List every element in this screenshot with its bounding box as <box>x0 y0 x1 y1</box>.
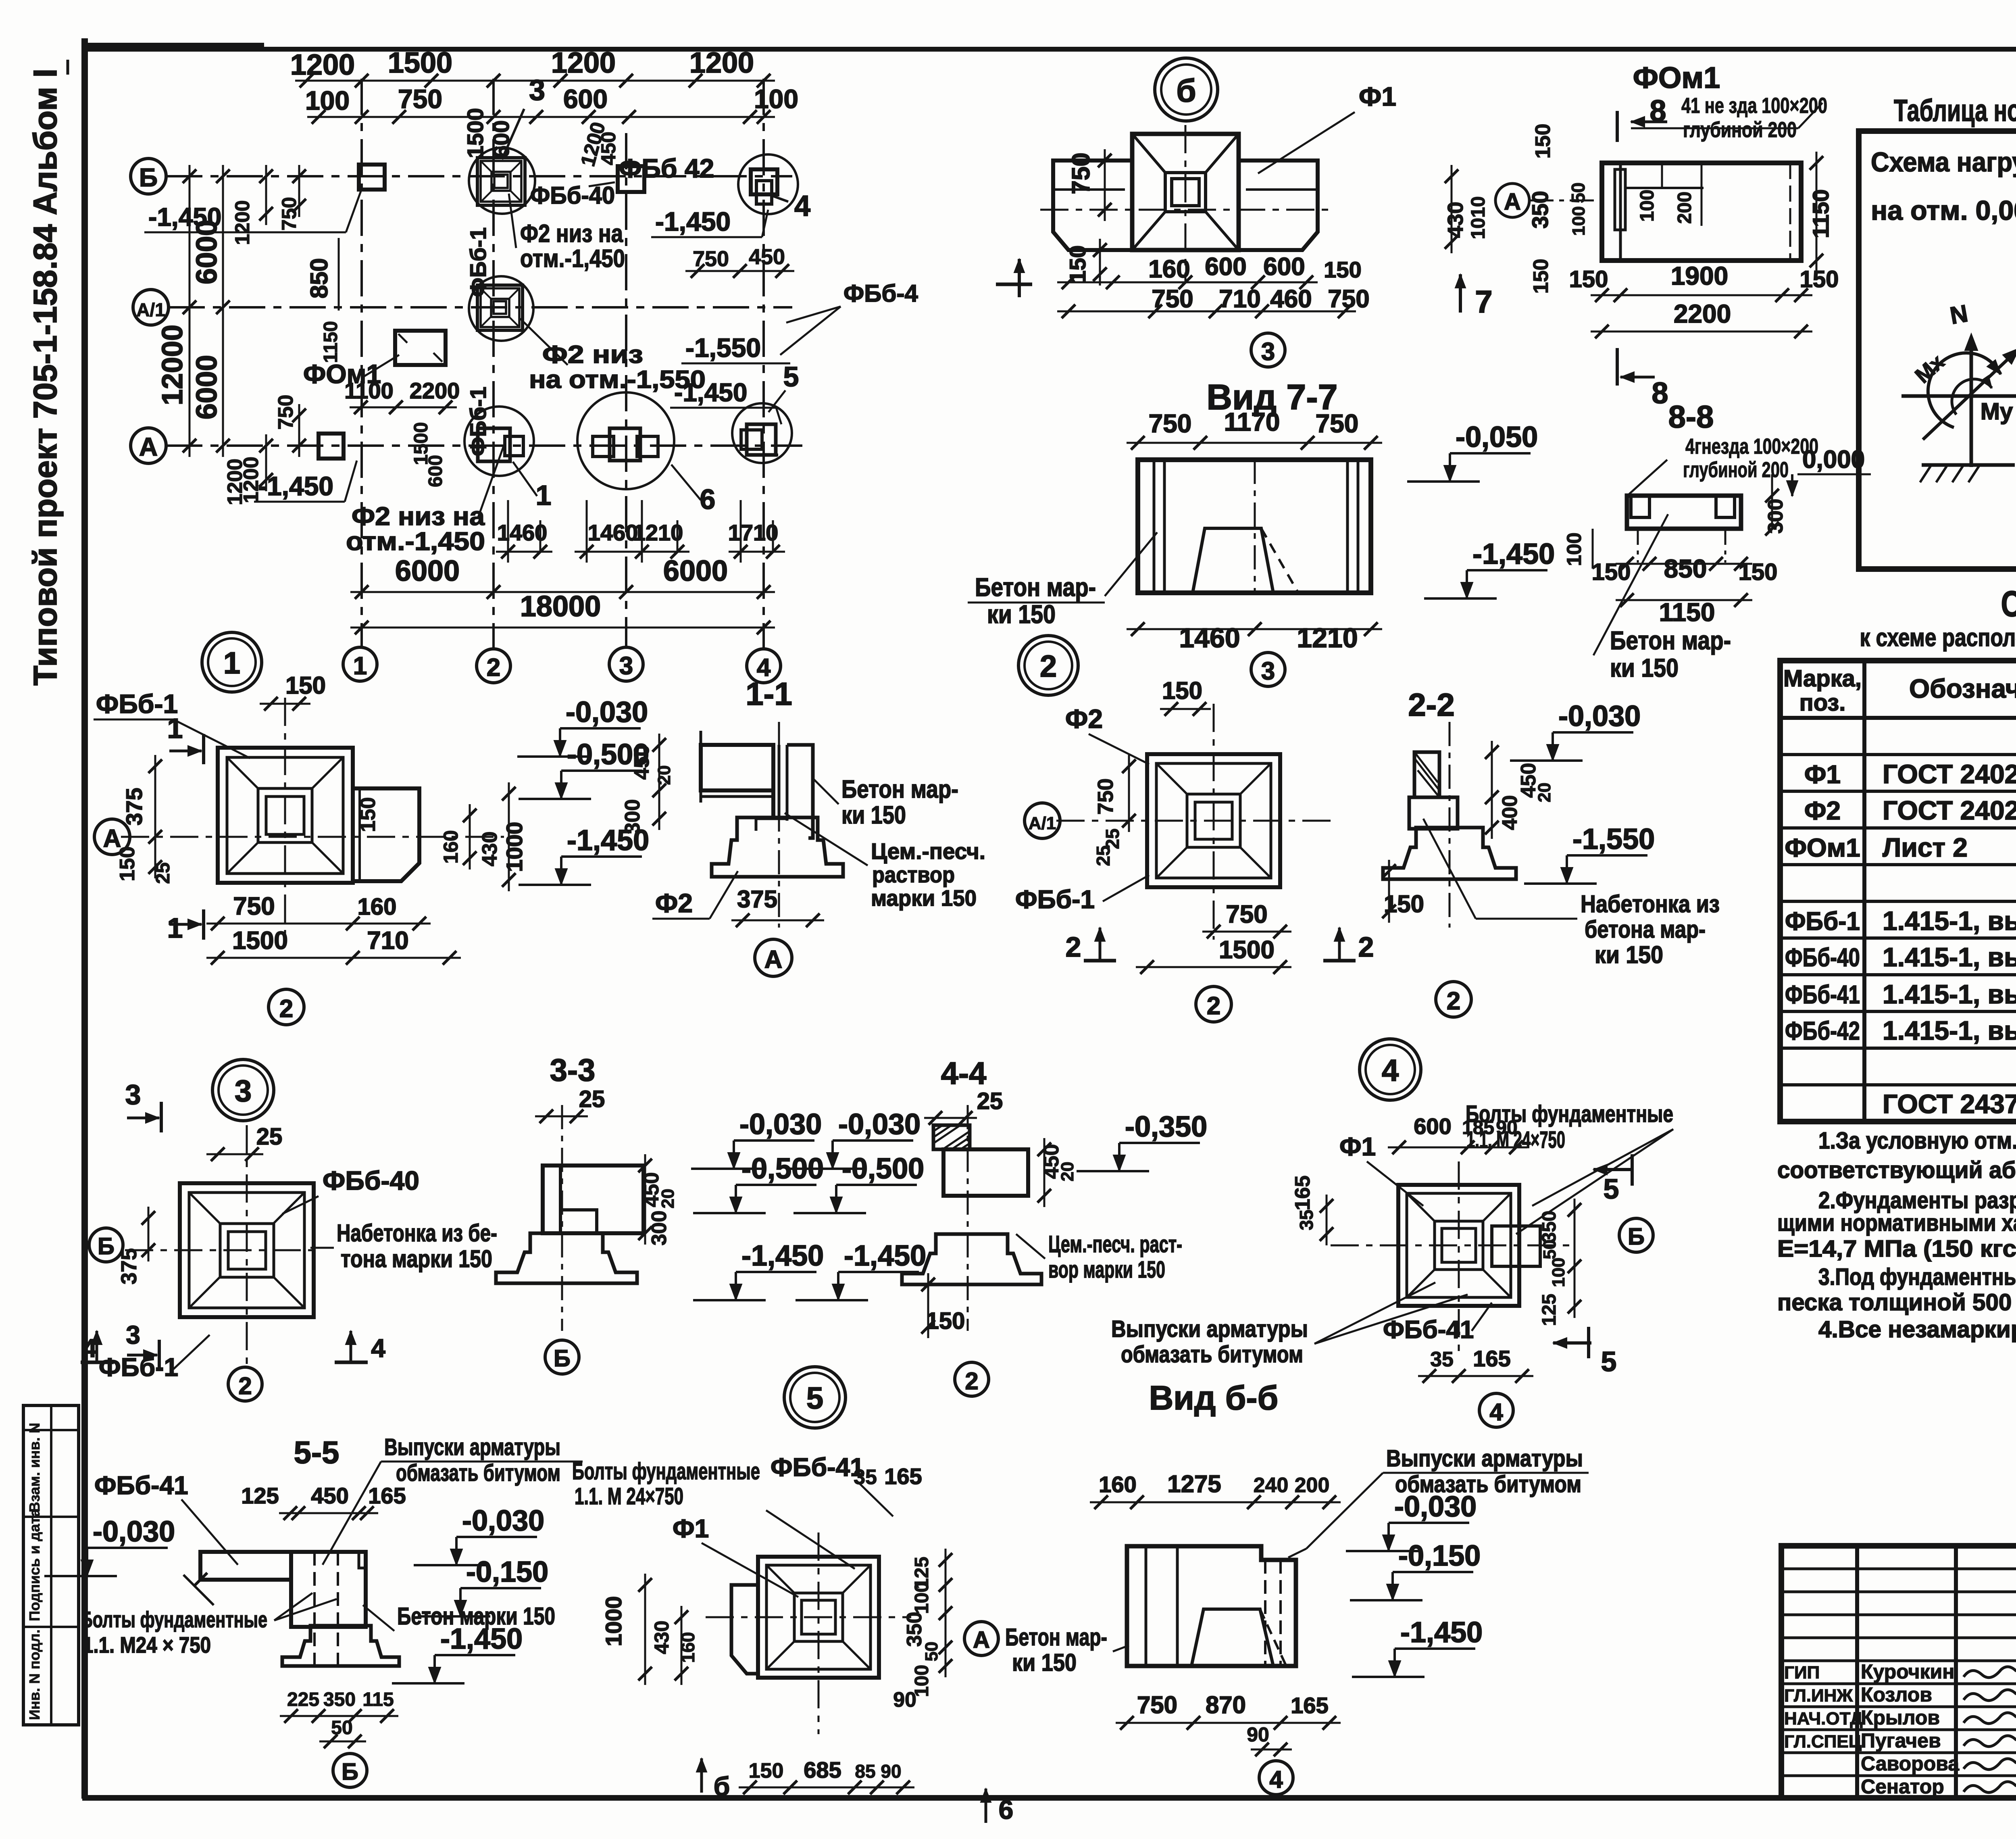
svg-text:Б: Б <box>1628 1224 1645 1250</box>
svg-text:-1,450: -1,450 <box>844 1240 926 1272</box>
svg-text:ФБб-41: ФБб-41 <box>94 1471 188 1500</box>
svg-text:Ф1: Ф1 <box>673 1514 709 1543</box>
svg-text:-0,030: -0,030 <box>739 1108 822 1141</box>
svg-text:отм.-1,450: отм.-1,450 <box>346 527 485 556</box>
8-8 body <box>1627 496 1741 529</box>
svg-text:150: 150 <box>749 1759 784 1783</box>
detail б left beam <box>1053 161 1132 250</box>
svg-text:Выпуски арматуры: Выпуски арматуры <box>1111 1316 1308 1342</box>
svg-text:А: А <box>1504 189 1521 215</box>
svg-text:-1,450: -1,450 <box>655 206 731 236</box>
spec table columns <box>1862 661 1866 1122</box>
svg-text:4.Все незамаркированные фундам: 4.Все незамаркированные фундаменты марки… <box>1818 1316 2016 1343</box>
svg-text:600: 600 <box>1414 1113 1451 1139</box>
sheet frame <box>81 38 88 1799</box>
svg-text:Ф2: Ф2 <box>1065 704 1103 734</box>
svg-text:-0,050: -0,050 <box>1456 421 1538 453</box>
svg-text:600: 600 <box>1205 253 1246 281</box>
svg-text:Марка,: Марка, <box>1783 665 1862 692</box>
svg-text:А: А <box>973 1627 990 1653</box>
svg-text:3: 3 <box>529 74 545 106</box>
svg-text:750: 750 <box>1067 152 1095 194</box>
svg-text:350: 350 <box>323 1689 356 1710</box>
plan axis line А/1 <box>169 306 792 309</box>
svg-text:150: 150 <box>285 672 326 699</box>
svg-text:100: 100 <box>1569 206 1589 236</box>
svg-text:150: 150 <box>1531 124 1555 159</box>
svg-text:4: 4 <box>82 1334 97 1363</box>
plan column bubble 4 <box>747 649 781 683</box>
svg-text:ки 150: ки 150 <box>1595 941 1663 968</box>
detail circle 4 at Б-4 <box>738 154 798 214</box>
svg-text:2: 2 <box>279 995 293 1023</box>
svg-text:710: 710 <box>1219 285 1260 313</box>
svg-text:150: 150 <box>356 797 380 832</box>
svg-text:600: 600 <box>1263 253 1305 281</box>
svg-text:2: 2 <box>1447 987 1460 1015</box>
svg-text:Пугачев: Пугачев <box>1861 1729 1941 1752</box>
svg-text:1275: 1275 <box>1167 1470 1221 1497</box>
detail circle 2 at А/1-2 <box>469 276 533 341</box>
svg-text:1200: 1200 <box>689 47 754 79</box>
Вид 6-6 bubble 4 <box>1259 1761 1293 1795</box>
svg-text:1150: 1150 <box>1659 598 1715 627</box>
detail 1 foundation plan <box>218 748 353 883</box>
svg-text:А: А <box>139 432 158 461</box>
svg-text:на отм. 0,000: на отм. 0,000 <box>1871 195 2016 226</box>
svg-text:100: 100 <box>305 85 350 115</box>
svg-text:375: 375 <box>121 788 147 825</box>
4-4 foundation bell <box>902 1234 1041 1284</box>
svg-text:1170: 1170 <box>1224 407 1280 436</box>
svg-text:ки 150: ки 150 <box>1012 1649 1077 1676</box>
section mark 8 bottom <box>1616 348 1619 386</box>
svg-text:НАЧ.ОТД: НАЧ.ОТД <box>1784 1709 1863 1728</box>
svg-text:ки 150: ки 150 <box>841 801 906 829</box>
left margin stamp strip <box>23 1405 79 1725</box>
svg-text:1.415-1, вып.1: 1.415-1, вып.1 <box>1883 942 2016 972</box>
svg-text:25: 25 <box>256 1124 283 1150</box>
svg-text:5: 5 <box>783 361 799 392</box>
svg-text:450: 450 <box>630 745 654 780</box>
svg-text:1500: 1500 <box>1219 936 1275 964</box>
svg-text:Ф1: Ф1 <box>1339 1132 1376 1161</box>
svg-text:ки 150: ки 150 <box>1610 653 1679 682</box>
svg-text:850: 850 <box>1664 554 1707 583</box>
plan bottom dim 18000 <box>350 627 775 629</box>
plan top dimension chain row 1 <box>295 80 775 82</box>
section mark 5 right <box>1593 1168 1632 1171</box>
svg-text:100: 100 <box>911 1582 933 1614</box>
svg-text:350: 350 <box>903 1612 926 1647</box>
title block signature squiggles <box>1964 1667 2016 1678</box>
svg-text:90: 90 <box>881 1761 901 1782</box>
svg-text:1200: 1200 <box>551 47 616 79</box>
plan column line 2 <box>492 79 495 649</box>
svg-text:0,000: 0,000 <box>1802 446 1865 473</box>
ФОм1 plan body <box>1602 163 1801 261</box>
4-4 bubble 2 <box>955 1362 989 1396</box>
svg-text:бетона мар-: бетона мар- <box>1585 916 1706 943</box>
svg-text:50: 50 <box>922 1642 941 1662</box>
svg-text:-0,030: -0,030 <box>1558 700 1641 732</box>
svg-text:ФОм1: ФОм1 <box>1633 61 1720 94</box>
svg-text:8: 8 <box>1652 376 1668 410</box>
svg-text:600: 600 <box>563 84 608 114</box>
svg-text:450: 450 <box>597 131 620 165</box>
svg-text:1200: 1200 <box>231 200 254 245</box>
svg-text:25: 25 <box>1093 845 1114 866</box>
svg-text:685: 685 <box>804 1757 841 1783</box>
svg-text:Ф2: Ф2 <box>655 888 693 918</box>
plan top dimension chain row 2 <box>307 116 775 118</box>
detail 2 bottom dims <box>1202 931 1291 933</box>
foundation А-2 group with beam <box>478 428 510 461</box>
svg-text:165: 165 <box>884 1464 922 1489</box>
svg-text:1460: 1460 <box>588 520 638 545</box>
detail б foundation plan <box>1185 125 1187 282</box>
svg-text:Лист 2: Лист 2 <box>1883 832 1968 862</box>
svg-text:870: 870 <box>1206 1691 1246 1718</box>
svg-text:160: 160 <box>1099 1472 1136 1497</box>
Вид 7-7 bubble 3 <box>1251 653 1285 686</box>
svg-text:Взам. инв. N: Взам. инв. N <box>26 1423 43 1512</box>
svg-text:Саворова: Саворова <box>1861 1752 1960 1775</box>
svg-text:4: 4 <box>1269 1766 1283 1793</box>
svg-text:100: 100 <box>1637 190 1658 222</box>
section mark 7 right <box>1459 274 1462 313</box>
detail 1 beam right <box>353 788 419 881</box>
svg-text:2: 2 <box>238 1372 252 1399</box>
svg-text:Б: Б <box>554 1345 571 1372</box>
2-2 pedestal and bell <box>1409 797 1458 829</box>
svg-text:240: 240 <box>1254 1474 1289 1497</box>
svg-text:3.Под фундаментные балки выпол: 3.Под фундаментные балки выполнить подго… <box>1818 1264 2016 1290</box>
svg-text:1010: 1010 <box>1468 196 1489 240</box>
detail circle 1 at А-2 <box>464 407 534 476</box>
Вид 7-7 top dims <box>1127 442 1382 444</box>
detail 2 foundation plan <box>1147 754 1280 887</box>
svg-text:100: 100 <box>754 84 798 114</box>
svg-text:6: 6 <box>700 484 716 515</box>
plan bottom dim 6000 6000 <box>350 591 775 593</box>
svg-text:150: 150 <box>1800 266 1839 292</box>
svg-text:Выпуски арматуры: Выпуски арматуры <box>384 1434 560 1460</box>
2-2 bubble 2 <box>1436 982 1471 1017</box>
svg-text:5-5: 5-5 <box>294 1435 339 1470</box>
svg-text:6000: 6000 <box>663 555 728 587</box>
svg-text:-0,150: -0,150 <box>466 1556 548 1588</box>
svg-text:90: 90 <box>1496 1117 1517 1138</box>
svg-text:300: 300 <box>621 799 644 834</box>
svg-text:430: 430 <box>650 1620 673 1654</box>
svg-text:50: 50 <box>1568 182 1589 203</box>
5-5 axis circle Б <box>333 1754 367 1787</box>
svg-text:150: 150 <box>1592 559 1631 585</box>
svg-text:1.415-1, вып.1: 1.415-1, вып.1 <box>1883 906 2016 936</box>
svg-text:6000: 6000 <box>395 555 460 587</box>
detail bubble 3 <box>212 1059 274 1121</box>
svg-text:ФБб-1: ФБб-1 <box>1015 885 1095 914</box>
svg-text:750: 750 <box>1152 285 1193 313</box>
svg-text:750: 750 <box>274 395 298 430</box>
svg-text:ФБб-1: ФБб-1 <box>96 689 178 719</box>
svg-text:Цем.-песч.: Цем.-песч. <box>871 838 985 864</box>
svg-text:Спецификация элементов: Спецификация элементов <box>2001 584 2016 624</box>
svg-text:My: My <box>1981 398 2013 425</box>
detail 4 axis circle Б <box>1619 1218 1653 1252</box>
svg-text:150: 150 <box>116 847 139 882</box>
svg-text:-0,030: -0,030 <box>566 696 648 728</box>
section mark 7 left <box>1018 259 1021 297</box>
svg-text:Бетон мар-: Бетон мар- <box>1005 1624 1107 1651</box>
svg-text:1460: 1460 <box>1179 623 1240 653</box>
section mark 6 (detail 5) <box>700 1758 703 1793</box>
svg-text:Подпись и дата: Подпись и дата <box>26 1508 43 1621</box>
svg-text:ФБб 42: ФБб 42 <box>619 153 714 183</box>
1-1 beam section <box>700 731 702 803</box>
svg-text:б: б <box>1176 73 1196 108</box>
svg-text:165: 165 <box>368 1483 406 1508</box>
detail 3 axis circle Б <box>89 1228 123 1262</box>
1-1 axis circle А <box>755 939 792 976</box>
svg-text:25: 25 <box>977 1088 1003 1114</box>
detail б bubble 3 below <box>1251 333 1285 367</box>
svg-text:750: 750 <box>1226 901 1267 928</box>
title block signature grid <box>1855 1546 1859 1798</box>
svg-text:ФБб-1: ФБб-1 <box>1785 907 1860 936</box>
svg-text:2: 2 <box>487 654 500 682</box>
svg-text:1.415-1, вып.1: 1.415-1, вып.1 <box>1883 979 2016 1009</box>
svg-text:200: 200 <box>1295 1474 1330 1497</box>
svg-text:вор марки 150: вор марки 150 <box>1048 1257 1165 1283</box>
section mark 4 lower-left <box>96 1331 98 1363</box>
detail 4 bubble 4 <box>1479 1393 1513 1427</box>
svg-text:ГЛ.СПЕЦ: ГЛ.СПЕЦ <box>1784 1732 1862 1751</box>
svg-text:ФБб-40: ФБб-40 <box>530 182 615 209</box>
svg-text:8-8: 8-8 <box>1668 399 1714 434</box>
svg-text:Типовой проект 705-1-158.8: Типовой проект 705-1-158.84 Альбом I <box>27 69 64 686</box>
svg-text:750: 750 <box>1316 409 1359 438</box>
svg-text:2: 2 <box>965 1368 978 1395</box>
svg-text:200: 200 <box>1674 192 1695 224</box>
svg-text:А/1: А/1 <box>1029 813 1056 833</box>
svg-text:поз.: поз. <box>1799 690 1846 716</box>
svg-text:1.1. М 24×750: 1.1. М 24×750 <box>575 1483 683 1510</box>
svg-text:160: 160 <box>1148 255 1190 283</box>
svg-text:160: 160 <box>358 894 397 920</box>
svg-text:ФБб-41: ФБб-41 <box>771 1453 864 1482</box>
svg-text:1210: 1210 <box>633 520 683 545</box>
svg-text:3: 3 <box>126 1320 140 1349</box>
svg-text:450: 450 <box>311 1483 348 1508</box>
detail 1 axis circle А <box>94 819 130 855</box>
svg-text:1200: 1200 <box>223 459 247 505</box>
svg-text:1500: 1500 <box>462 108 488 158</box>
svg-text:ФБб-1: ФБб-1 <box>99 1353 178 1382</box>
svg-text:ГЛ.ИНЖ: ГЛ.ИНЖ <box>1784 1686 1853 1706</box>
svg-text:1710: 1710 <box>728 520 779 545</box>
svg-text:Курочкин: Курочкин <box>1861 1660 1955 1683</box>
svg-text:ГОСТ 24379.1-80: ГОСТ 24379.1-80 <box>1883 1089 2016 1119</box>
svg-text:225: 225 <box>287 1689 319 1710</box>
svg-text:20: 20 <box>1535 783 1554 803</box>
loads schema sketch N Qx Qy My Mx <box>1970 338 1973 467</box>
svg-text:б: б <box>714 1771 730 1801</box>
plan column line 3 <box>625 133 627 647</box>
svg-text:150: 150 <box>1162 677 1202 704</box>
svg-text:115: 115 <box>362 1689 394 1710</box>
svg-text:1200: 1200 <box>290 49 355 81</box>
svg-text:2: 2 <box>1207 992 1220 1020</box>
svg-text:1: 1 <box>353 652 367 680</box>
svg-text:1.1. М24 × 750: 1.1. М24 × 750 <box>83 1632 211 1658</box>
svg-text:450: 450 <box>749 245 785 269</box>
svg-text:1000: 1000 <box>502 822 527 872</box>
svg-text:35: 35 <box>1296 1209 1317 1230</box>
svg-text:Бетон мар-: Бетон мар- <box>841 776 958 803</box>
svg-text:5: 5 <box>1604 1173 1619 1205</box>
detail 4 foundation plan <box>1398 1185 1519 1306</box>
svg-text:Таблица нормативных нагрузок: Таблица нормативных нагрузок на фундамен… <box>1894 94 2016 128</box>
detail bubble 2 <box>1018 636 1078 695</box>
svg-text:соответствующий абсолютной отм: соответствующий абсолютной отметке на ме… <box>1777 1157 2016 1183</box>
svg-text:1.За условную отм.0,000 принят: 1.За условную отм.0,000 принят уровень ч… <box>1818 1128 2016 1154</box>
foundation square Б-3 <box>618 166 644 192</box>
svg-text:430: 430 <box>1443 202 1468 238</box>
svg-text:ГИП: ГИП <box>1784 1663 1820 1683</box>
loads table outer box <box>1859 131 2016 569</box>
svg-text:2: 2 <box>1066 931 1081 963</box>
svg-text:5: 5 <box>1601 1346 1617 1377</box>
svg-text:марки 150: марки 150 <box>871 885 977 911</box>
svg-text:ФБб-42: ФБб-42 <box>1785 1016 1860 1045</box>
svg-text:150: 150 <box>1324 257 1361 282</box>
svg-text:90: 90 <box>1247 1723 1269 1746</box>
svg-text:460: 460 <box>1270 285 1312 313</box>
plan column line 1 <box>360 79 363 647</box>
svg-text:1: 1 <box>536 480 552 511</box>
2-2 column stub hatched <box>1414 752 1439 797</box>
detail circle 6 at А-3 <box>577 392 674 489</box>
svg-text:1500: 1500 <box>388 47 452 79</box>
plan axis А/1 circle <box>133 290 169 325</box>
svg-text:Инв. N подл.: Инв. N подл. <box>26 1629 43 1720</box>
Вид 7-7 bottom dims <box>1127 628 1382 630</box>
svg-text:2200: 2200 <box>410 378 460 403</box>
detail bubble б <box>1155 58 1218 121</box>
svg-text:4: 4 <box>371 1334 385 1363</box>
svg-text:ГОСТ 24022-80: ГОСТ 24022-80 <box>1883 759 2016 789</box>
svg-text:4-4: 4-4 <box>941 1055 987 1091</box>
svg-text:165: 165 <box>1291 1176 1314 1211</box>
svg-text:Бетон мар-: Бетон мар- <box>975 573 1096 602</box>
svg-text:6: 6 <box>999 1795 1014 1824</box>
svg-text:18000: 18000 <box>520 590 601 623</box>
svg-text:ФОм1: ФОм1 <box>1785 833 1860 862</box>
title block outer <box>1781 1546 2016 1798</box>
svg-text:Набетонка из: Набетонка из <box>1581 890 1720 917</box>
svg-text:20: 20 <box>658 1189 678 1209</box>
plan column line 4 <box>762 79 765 649</box>
spec table header <box>1780 716 2016 720</box>
foundation А-4 group <box>741 430 762 449</box>
svg-text:-1,450: -1,450 <box>1400 1616 1483 1649</box>
svg-text:150: 150 <box>1529 259 1553 294</box>
svg-text:-1,450: -1,450 <box>674 378 747 407</box>
svg-text:Болты фундаментные: Болты фундаментные <box>81 1607 267 1632</box>
svg-text:Набетонка из бе-: Набетонка из бе- <box>337 1220 497 1247</box>
svg-text:375: 375 <box>737 886 777 913</box>
svg-text:150: 150 <box>1569 266 1608 292</box>
detail 2 axis circle А/1 <box>1025 803 1060 838</box>
svg-text:1: 1 <box>167 713 183 744</box>
svg-text:750: 750 <box>1149 409 1192 438</box>
Вид 7-7 body <box>1138 460 1371 593</box>
svg-text:8: 8 <box>1649 94 1666 127</box>
svg-text:-1,450: -1,450 <box>440 1623 523 1655</box>
svg-text:-0,150: -0,150 <box>1398 1540 1481 1572</box>
1-1 foundation bell <box>712 817 843 877</box>
svg-text:1000: 1000 <box>601 1596 626 1647</box>
plan axis Б circle <box>131 158 166 194</box>
plan axis А circle <box>131 428 166 463</box>
svg-text:ГОСТ 24022-80: ГОСТ 24022-80 <box>1883 795 2016 825</box>
section mark 2 right <box>1338 928 1341 962</box>
svg-text:90: 90 <box>893 1688 916 1712</box>
svg-text:Вид б-б: Вид б-б <box>1149 1379 1279 1417</box>
svg-text:3-3: 3-3 <box>550 1052 596 1088</box>
svg-text:430: 430 <box>478 832 502 867</box>
svg-text:4гнезда 100×200: 4гнезда 100×200 <box>1685 434 1818 459</box>
svg-text:глубиной 200: глубиной 200 <box>1683 118 1797 142</box>
svg-text:2: 2 <box>1040 649 1057 684</box>
svg-text:-1,450: -1,450 <box>148 202 221 231</box>
svg-text:750: 750 <box>693 247 729 271</box>
svg-text:А: А <box>764 946 783 974</box>
svg-text:375: 375 <box>117 1248 141 1284</box>
svg-text:300: 300 <box>1764 499 1787 534</box>
svg-text:100: 100 <box>1549 1257 1568 1287</box>
svg-text:750: 750 <box>1137 1691 1177 1718</box>
4-4 beam section <box>933 1125 970 1149</box>
svg-text:50: 50 <box>331 1717 352 1739</box>
svg-text:-0,030: -0,030 <box>462 1505 544 1537</box>
section mark 5 bottom right <box>1587 1327 1590 1358</box>
detail circle 5 at А-4 <box>732 403 792 463</box>
foundation square А-1 <box>319 434 344 459</box>
svg-text:Б: Б <box>139 163 158 192</box>
svg-text:6000: 6000 <box>191 355 223 419</box>
svg-text:350: 350 <box>1527 191 1553 228</box>
svg-text:350: 350 <box>1539 1211 1560 1243</box>
svg-text:Б: Б <box>342 1759 358 1785</box>
svg-text:41 не зда 100×200: 41 не зда 100×200 <box>1681 94 1827 118</box>
svg-text:Болты фундаментные: Болты фундаментные <box>572 1458 760 1485</box>
svg-text:1900: 1900 <box>1671 261 1728 290</box>
svg-text:1150: 1150 <box>320 321 342 363</box>
svg-text:ФБб-40: ФБб-40 <box>1785 943 1860 972</box>
svg-text:7: 7 <box>1475 284 1492 319</box>
detail 1 bottom dims <box>206 923 431 925</box>
svg-text:Цем.-песч. раст-: Цем.-песч. раст- <box>1048 1231 1182 1257</box>
svg-text:ФБб-41: ФБб-41 <box>1785 980 1860 1009</box>
3-3 foundation bell <box>496 1233 637 1283</box>
foundation square Б-1 <box>359 165 385 190</box>
svg-text:ФБб-4: ФБб-4 <box>843 280 918 307</box>
svg-text:1500: 1500 <box>232 927 288 955</box>
plan left small dims 1200 750 <box>265 165 267 225</box>
